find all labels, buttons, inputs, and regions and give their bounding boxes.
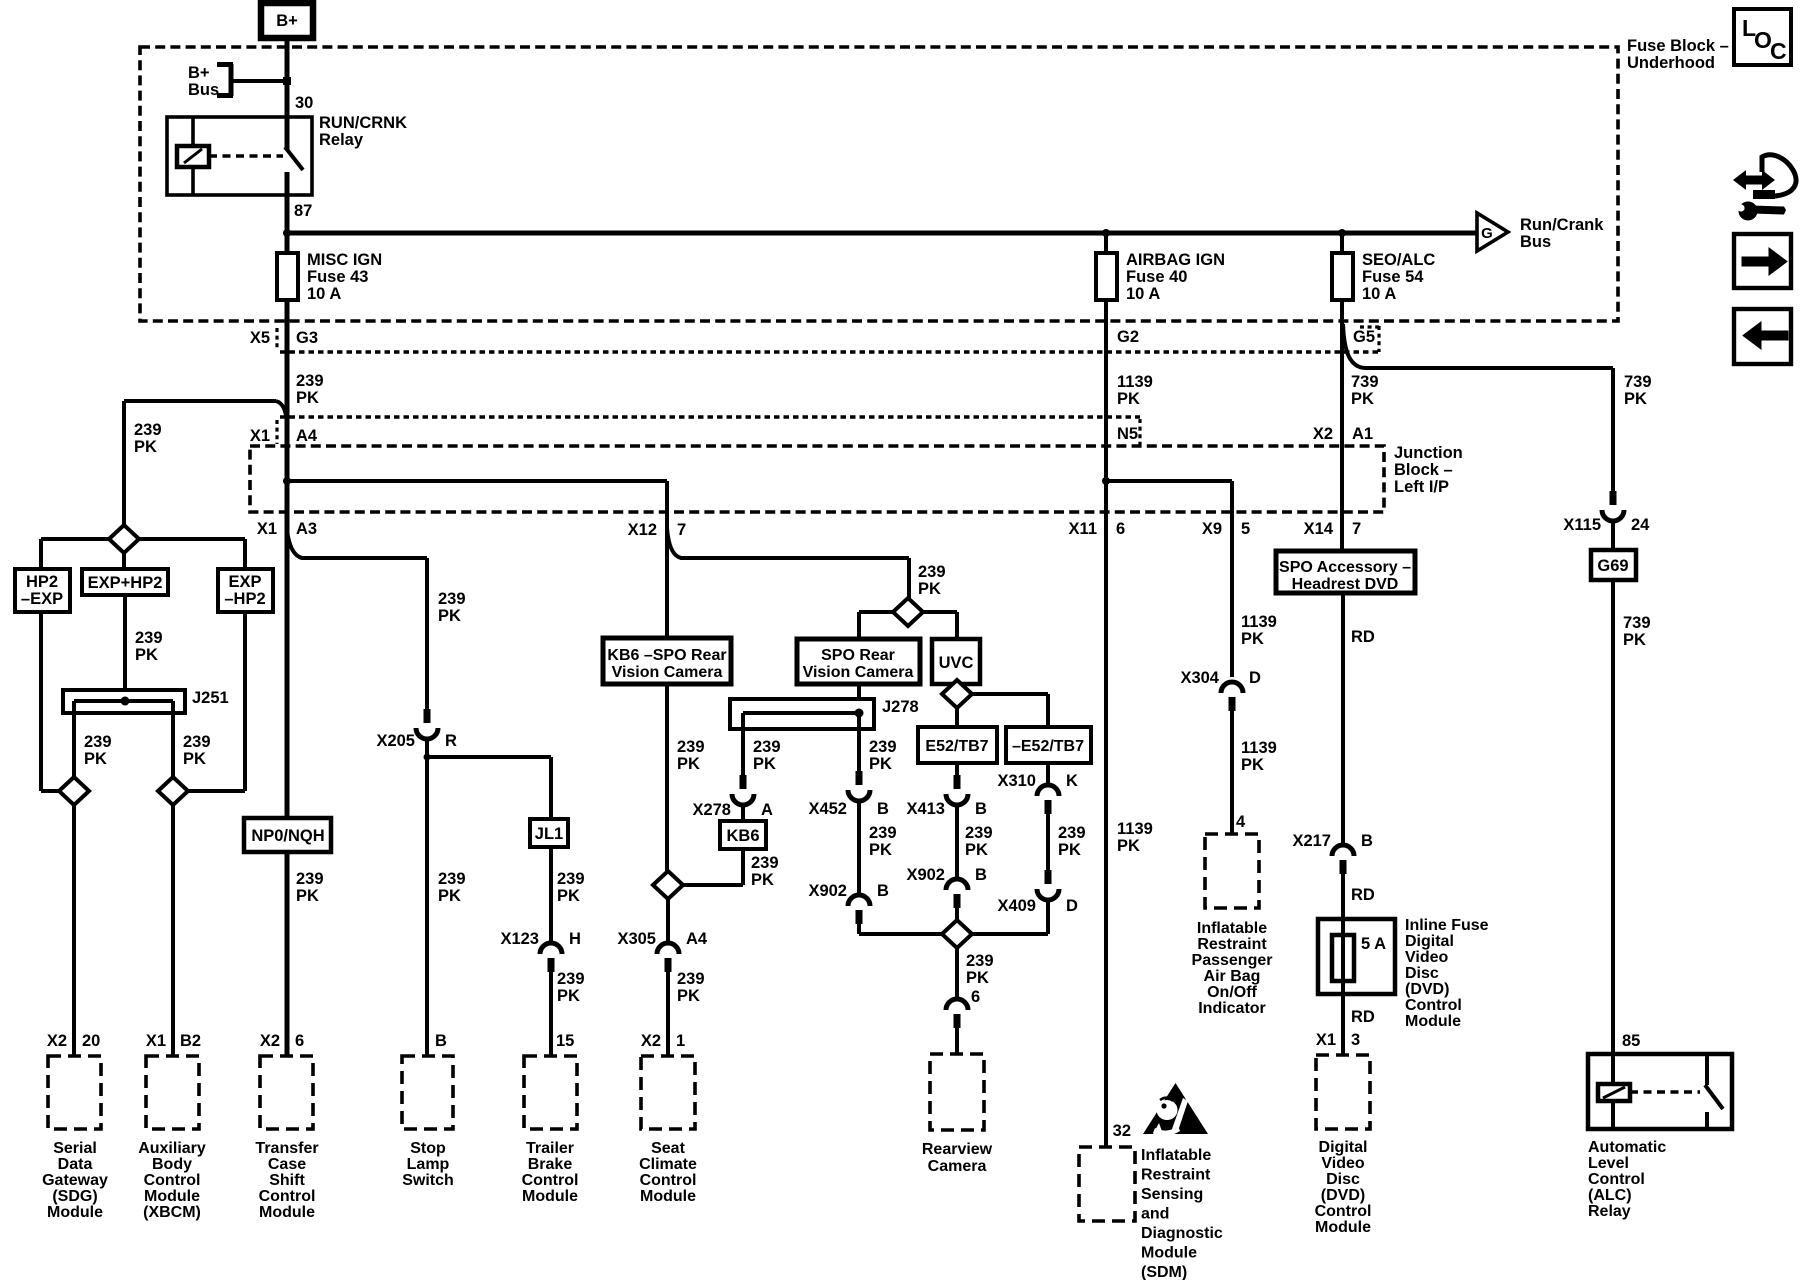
module box Trailer Brake Control Module xyxy=(524,1056,577,1129)
bus bar J278 xyxy=(730,699,874,729)
svg-text:Relay: Relay xyxy=(319,131,364,149)
ALC relay coil xyxy=(1598,1084,1630,1101)
svg-text:K: K xyxy=(1066,772,1078,790)
N5 dotted box edge xyxy=(1138,419,1141,445)
svg-text:X452: X452 xyxy=(808,800,847,818)
svg-text:Module: Module xyxy=(1405,1013,1461,1030)
wire J278 left leg to X278 xyxy=(741,713,745,775)
svg-text:239: 239 xyxy=(135,629,163,647)
relay box ALC xyxy=(1588,1054,1732,1129)
svg-text:Video: Video xyxy=(1321,1155,1365,1172)
svg-text:Brake: Brake xyxy=(528,1156,573,1173)
svg-text:Junction: Junction xyxy=(1394,444,1463,462)
svg-text:X9: X9 xyxy=(1202,520,1222,538)
label X9 5 xyxy=(1202,520,1250,538)
wire X902 left to splice xyxy=(859,923,943,934)
svg-text:Seat: Seat xyxy=(651,1140,685,1157)
option box EXP -HP2 xyxy=(218,569,273,612)
option box JL1 xyxy=(530,819,568,847)
icon forward arrow box xyxy=(1734,234,1791,288)
svg-text:X2: X2 xyxy=(1313,425,1333,443)
splice diamond XBCM xyxy=(158,777,188,805)
wire B+ to relay pin 30 xyxy=(285,38,290,150)
junction dot J251 xyxy=(121,697,130,706)
svg-text:D: D xyxy=(1066,897,1078,915)
svg-text:G5: G5 xyxy=(1353,328,1375,346)
svg-text:Air Bag: Air Bag xyxy=(1204,968,1261,985)
svg-text:PK: PK xyxy=(918,580,941,598)
label X409 D xyxy=(997,897,1078,915)
back arrow xyxy=(1743,322,1788,349)
wire G69 to ALC relay xyxy=(1611,580,1615,1054)
svg-text:20: 20 xyxy=(82,1032,100,1050)
svg-text:X205: X205 xyxy=(376,732,415,750)
option box KB6 xyxy=(720,821,766,849)
module box Transfer Case Shift Control Module xyxy=(260,1056,313,1129)
svg-text:Inflatable: Inflatable xyxy=(1197,920,1267,937)
page icon L-O-C box xyxy=(1734,9,1791,65)
module box Stop Lamp Switch xyxy=(402,1056,453,1129)
svg-text:739: 739 xyxy=(1624,373,1652,391)
wire splice2 to E52/TB7 xyxy=(955,708,959,727)
svg-text:RD: RD xyxy=(1351,628,1375,646)
relay internal dashed actuator link xyxy=(209,154,283,158)
svg-text:B: B xyxy=(877,882,889,900)
svg-text:87: 87 xyxy=(294,202,312,220)
relay switch lower contact xyxy=(285,172,290,195)
svg-text:PK: PK xyxy=(1117,390,1140,408)
wire splice to XBCM module xyxy=(171,805,175,1056)
svg-text:A4: A4 xyxy=(686,930,708,948)
option box -E52/TB7 xyxy=(1006,727,1091,763)
relay coil xyxy=(177,146,209,167)
svg-text:239: 239 xyxy=(296,372,324,390)
svg-text:X2: X2 xyxy=(47,1032,67,1050)
svg-text:PK: PK xyxy=(438,887,461,905)
relay coil lower lead xyxy=(191,167,195,195)
svg-text:PK: PK xyxy=(677,755,700,773)
svg-text:239: 239 xyxy=(1058,824,1086,842)
svg-text:PK: PK xyxy=(84,750,107,768)
svg-text:X1: X1 xyxy=(257,520,277,538)
svg-text:PK: PK xyxy=(869,841,892,859)
svg-text:Diagnostic: Diagnostic xyxy=(1141,1225,1223,1242)
svg-text:Control: Control xyxy=(640,1172,697,1189)
wire connector to rearview camera xyxy=(955,1027,959,1054)
svg-text:Transfer: Transfer xyxy=(255,1140,318,1157)
wire EXP+HP2 to J251 xyxy=(123,595,127,701)
svg-text:Headrest DVD: Headrest DVD xyxy=(1292,576,1399,593)
inline connector X310 xyxy=(1037,785,1059,814)
svg-text:PK: PK xyxy=(557,987,580,1005)
letters L O C xyxy=(1742,15,1787,64)
label HP2 -EXP xyxy=(21,573,63,608)
junction block left I/P dashed outline xyxy=(250,446,1384,512)
label X1 B2 XBCM pins xyxy=(146,1032,201,1050)
wire -E52 to X310 xyxy=(1046,763,1050,786)
svg-text:Bus: Bus xyxy=(188,81,219,99)
svg-text:X2: X2 xyxy=(641,1032,661,1050)
svg-text:X902: X902 xyxy=(808,882,847,900)
label X413 B xyxy=(906,800,987,818)
splice diamond main left xyxy=(109,525,139,553)
svg-text:PK: PK xyxy=(1117,837,1140,855)
svg-text:X304: X304 xyxy=(1180,669,1219,687)
wire J278 right leg to X452 xyxy=(857,713,861,771)
wire KB6 camera to splice xyxy=(665,684,669,872)
svg-text:EXP: EXP xyxy=(228,573,261,591)
svg-text:A3: A3 xyxy=(296,520,317,538)
svg-text:1139: 1139 xyxy=(1241,613,1277,631)
svg-text:X1: X1 xyxy=(1316,1031,1336,1049)
svg-text:239: 239 xyxy=(677,738,705,756)
svg-text:1139: 1139 xyxy=(1241,739,1277,757)
svg-text:739: 739 xyxy=(1351,373,1379,391)
label SPO Accessory - Headrest DVD xyxy=(1279,559,1411,593)
wire SPO camera to J278 xyxy=(857,684,861,713)
icon back arrow box xyxy=(1734,309,1791,364)
svg-text:239: 239 xyxy=(296,870,324,888)
relay RUN/CRNK box xyxy=(167,117,312,195)
svg-text:MISC IGN: MISC IGN xyxy=(307,251,382,269)
separator X1|A4 xyxy=(275,420,278,444)
svg-text:NP0/NQH: NP0/NQH xyxy=(251,827,324,845)
svg-text:X278: X278 xyxy=(692,801,731,819)
svg-text:SPO Accessory –: SPO Accessory – xyxy=(1279,559,1411,576)
power feed B+ terminal box xyxy=(261,3,313,38)
svg-text:UVC: UVC xyxy=(939,654,974,672)
svg-text:Module: Module xyxy=(259,1204,315,1221)
wire G5 branch curve to right xyxy=(1343,324,1613,368)
svg-text:Restraint: Restraint xyxy=(1197,936,1267,953)
svg-text:Left I/P: Left I/P xyxy=(1394,478,1449,496)
wire X310 to X409 xyxy=(1046,813,1050,870)
run/crank bus output triangle G xyxy=(1477,213,1508,251)
module box DVD control module xyxy=(1316,1055,1370,1129)
G5 dotted box edge xyxy=(1360,326,1379,352)
label X2 6 transfer pins xyxy=(260,1032,304,1050)
svg-text:X217: X217 xyxy=(1292,832,1331,850)
svg-text:G69: G69 xyxy=(1597,557,1628,575)
svg-text:Fuse 54: Fuse 54 xyxy=(1362,268,1424,286)
module box Seat Climate Control Module xyxy=(641,1056,695,1129)
module box SDM xyxy=(1079,1147,1135,1221)
wire splice to SPO camera xyxy=(859,612,893,639)
svg-text:X413: X413 xyxy=(906,800,945,818)
svg-text:KB6 –SPO Rear: KB6 –SPO Rear xyxy=(607,647,726,664)
option box KB6 -SPO Rear Vision Camera xyxy=(603,638,731,684)
wire fuse 54 top lead xyxy=(1340,233,1344,253)
wire left branch horizontal xyxy=(124,399,276,403)
wire X452 to X902 xyxy=(857,801,861,896)
svg-text:PK: PK xyxy=(753,755,776,773)
wire splice to SDG module xyxy=(72,805,76,1056)
wire SPO feed drop to splice xyxy=(907,558,911,599)
wire splice to EXP-HP2 xyxy=(139,539,245,569)
svg-text:HP2: HP2 xyxy=(26,573,58,591)
svg-text:Trailer: Trailer xyxy=(526,1140,574,1157)
svg-text:Passenger: Passenger xyxy=(1192,952,1273,969)
junction dot JL1 branch xyxy=(424,754,431,761)
svg-text:X115: X115 xyxy=(1563,516,1601,534)
wire splice to X305 xyxy=(666,899,670,944)
wire X123 to trailer brake module xyxy=(549,971,553,1056)
svg-text:X1: X1 xyxy=(146,1032,166,1050)
svg-text:X123: X123 xyxy=(500,930,539,948)
wire stop lamp drop to X205 xyxy=(425,558,429,711)
wire E52 to X413 xyxy=(955,763,959,775)
svg-text:1: 1 xyxy=(676,1032,685,1050)
junction dot trunk xyxy=(283,477,291,485)
svg-text:PK: PK xyxy=(869,755,892,773)
svg-text:Video: Video xyxy=(1405,949,1449,966)
svg-text:Case: Case xyxy=(268,1156,306,1173)
svg-text:and: and xyxy=(1141,1205,1169,1222)
svg-text:KB6: KB6 xyxy=(726,827,759,845)
wire relay 87 down to fuse 43 xyxy=(285,195,290,253)
svg-text:–E52/TB7: –E52/TB7 xyxy=(1012,738,1084,755)
fuse F54 SEO/ALC xyxy=(1332,253,1353,300)
svg-text:Shift: Shift xyxy=(269,1172,305,1189)
svg-text:PK: PK xyxy=(296,389,319,407)
svg-text:A4: A4 xyxy=(296,427,318,445)
svg-text:E52/TB7: E52/TB7 xyxy=(925,738,988,755)
svg-text:239: 239 xyxy=(84,733,112,751)
label X12 7 xyxy=(628,521,687,539)
inline connector X409 xyxy=(1037,870,1059,900)
bus bar J251 xyxy=(63,690,185,713)
svg-text:Lamp: Lamp xyxy=(407,1156,450,1173)
svg-text:X305: X305 xyxy=(617,930,656,948)
svg-text:239: 239 xyxy=(438,870,466,888)
junction tick B+ bus at trunk xyxy=(283,77,291,85)
option box HP2 -EXP xyxy=(15,569,70,612)
wire X217 to inline fuse xyxy=(1341,873,1345,919)
wire X413 to X902 mid xyxy=(955,805,959,880)
svg-text:Serial: Serial xyxy=(53,1140,97,1157)
option box SPO Rear Vision Camera xyxy=(797,639,920,684)
wire branch to JL1 xyxy=(427,757,551,819)
svg-text:Module: Module xyxy=(47,1204,103,1221)
svg-text:7: 7 xyxy=(1352,520,1361,538)
junction dot bus at fuse 54 xyxy=(1338,229,1346,237)
option box UVC xyxy=(932,639,980,684)
svg-text:G3: G3 xyxy=(296,329,318,347)
label X2 1 seat pins xyxy=(641,1032,685,1050)
svg-text:Vision Camera: Vision Camera xyxy=(612,664,723,681)
svg-text:–EXP: –EXP xyxy=(21,590,63,608)
wire left branch down to splice xyxy=(122,401,126,525)
inline fuse element xyxy=(1332,935,1354,981)
label X278 A xyxy=(692,801,773,819)
svg-text:Auxiliary: Auxiliary xyxy=(138,1140,206,1157)
svg-text:G2: G2 xyxy=(1117,328,1139,346)
svg-text:X409: X409 xyxy=(997,897,1036,915)
svg-text:B: B xyxy=(435,1032,447,1050)
svg-text:RUN/CRNK: RUN/CRNK xyxy=(319,114,407,132)
label X115 24 xyxy=(1563,516,1650,534)
wire JL1 to X123 xyxy=(549,847,553,944)
svg-text:Underhood: Underhood xyxy=(1627,54,1715,72)
option box NP0/NQH xyxy=(244,818,331,852)
svg-text:6: 6 xyxy=(1116,520,1125,538)
svg-text:6: 6 xyxy=(295,1032,304,1050)
splice diamond SDG xyxy=(59,777,89,805)
module box Serial Data Gateway xyxy=(48,1056,101,1129)
svg-text:B: B xyxy=(975,800,987,818)
svg-text:1139: 1139 xyxy=(1117,820,1153,838)
label X11 6 xyxy=(1069,520,1126,538)
module box Rearview Camera xyxy=(930,1054,984,1130)
wire splice to UVC xyxy=(922,612,957,639)
svg-text:239: 239 xyxy=(557,970,585,988)
svg-text:239: 239 xyxy=(966,952,994,970)
svg-text:SPO Rear: SPO Rear xyxy=(821,647,895,664)
svg-text:B: B xyxy=(877,800,889,818)
junction dot bus at fuse 40 xyxy=(1102,229,1110,237)
inline connector X115 xyxy=(1602,491,1624,521)
svg-text:(DVD): (DVD) xyxy=(1405,981,1449,998)
option box EXP+HP2 xyxy=(82,569,168,595)
svg-text:PK: PK xyxy=(751,871,774,889)
ALC relay switch blade xyxy=(1705,1085,1723,1109)
B+ Bus tap symbol xyxy=(217,64,233,96)
label X205 R xyxy=(376,732,457,750)
svg-text:(XBCM): (XBCM) xyxy=(143,1204,201,1221)
separator X5|G3 xyxy=(275,328,278,350)
label X310 K xyxy=(997,772,1078,790)
svg-text:PK: PK xyxy=(183,750,206,768)
inline connector X902 mid xyxy=(946,879,968,908)
svg-text:B+: B+ xyxy=(276,12,298,30)
svg-text:PK: PK xyxy=(1241,756,1264,774)
svg-text:H: H xyxy=(569,930,581,948)
wire X305 to seat climate module xyxy=(666,971,670,1056)
svg-text:Gateway: Gateway xyxy=(42,1172,108,1189)
wire left branch merge curve xyxy=(276,401,287,428)
label X1 3 DVD pin xyxy=(1316,1031,1360,1049)
splice diamond rear camera KB6 xyxy=(653,871,683,899)
svg-text:C: C xyxy=(1770,38,1787,64)
svg-text:Fuse 40: Fuse 40 xyxy=(1126,268,1187,286)
svg-text:239: 239 xyxy=(557,870,585,888)
svg-text:Inflatable: Inflatable xyxy=(1141,1147,1211,1164)
svg-text:X2: X2 xyxy=(260,1032,280,1050)
svg-text:X1: X1 xyxy=(250,427,270,445)
svg-text:SEO/ALC: SEO/ALC xyxy=(1362,251,1435,269)
wire trunk junction block to transfer case module xyxy=(285,481,290,1056)
svg-text:85: 85 xyxy=(1622,1032,1640,1050)
fuse F43 MISC IGN xyxy=(277,253,298,300)
svg-text:Module: Module xyxy=(1141,1244,1197,1261)
svg-text:Control: Control xyxy=(1405,997,1462,1014)
svg-text:Automatic: Automatic xyxy=(1588,1139,1666,1156)
connector box G69 xyxy=(1591,550,1636,580)
wire X902 mid to splice3 xyxy=(955,907,959,921)
svg-text:239: 239 xyxy=(751,854,779,872)
wire splice to EXP+HP2 xyxy=(122,553,126,569)
svg-text:PK: PK xyxy=(135,646,158,664)
svg-text:(SDM): (SDM) xyxy=(1141,1264,1187,1280)
fuse F40 AIRBAG IGN xyxy=(1096,253,1117,300)
svg-text:PK: PK xyxy=(965,841,988,859)
wire X12 branch curve to SPO feed xyxy=(667,528,909,558)
svg-text:Climate: Climate xyxy=(639,1156,697,1173)
svg-text:10 A: 10 A xyxy=(1362,285,1396,303)
wire X12 leg down to KB6 camera xyxy=(665,481,669,638)
svg-text:PK: PK xyxy=(677,987,700,1005)
svg-text:PK: PK xyxy=(134,438,157,456)
svg-text:X5: X5 xyxy=(250,329,270,347)
svg-text:–HP2: –HP2 xyxy=(224,590,265,608)
label X304 D xyxy=(1180,669,1261,687)
svg-text:X310: X310 xyxy=(997,772,1036,790)
svg-text:B+: B+ xyxy=(188,64,210,82)
wire SPO accessory to X217 xyxy=(1341,593,1345,846)
svg-text:15: 15 xyxy=(556,1032,574,1050)
relay coil diagonal xyxy=(184,149,202,163)
wire X278 to KB6 box xyxy=(741,805,745,821)
connector row dotted line X1/A4 N5 xyxy=(280,415,1140,419)
svg-text:4: 4 xyxy=(1236,813,1246,831)
svg-text:X14: X14 xyxy=(1304,520,1334,538)
inline connector X123 xyxy=(540,943,562,972)
wire splice3 down to pin 6 xyxy=(955,948,959,998)
label X2 20 SDG pins xyxy=(47,1032,101,1050)
svg-text:Disc: Disc xyxy=(1326,1171,1360,1188)
module box Inflatable Restraint Passenger Air Bag On/Off Indicator xyxy=(1205,834,1259,908)
svg-text:239: 239 xyxy=(869,824,897,842)
wire X304 to indicator xyxy=(1230,710,1234,834)
svg-text:A1: A1 xyxy=(1352,425,1373,443)
relay switch blade xyxy=(285,147,303,170)
svg-text:5 A: 5 A xyxy=(1361,935,1386,953)
wire fuse 40 top lead xyxy=(1104,233,1108,253)
svg-text:7: 7 xyxy=(677,521,686,539)
ALC relay switch lower stub xyxy=(1705,1112,1709,1129)
wire fuse54 down to SPO accessory box xyxy=(1340,300,1344,551)
wire J251 right leg xyxy=(171,701,175,777)
svg-text:Restraint: Restraint xyxy=(1141,1166,1211,1183)
wire HP2-EXP down xyxy=(41,612,59,791)
svg-text:Block –: Block – xyxy=(1394,461,1453,479)
svg-text:Fuse Block –: Fuse Block – xyxy=(1627,37,1729,55)
fuse block - underhood dashed outline xyxy=(140,47,1618,321)
wire through inline fuse xyxy=(1341,919,1345,994)
svg-text:RD: RD xyxy=(1351,886,1375,904)
svg-text:Sensing: Sensing xyxy=(1141,1186,1203,1203)
svg-text:PK: PK xyxy=(557,887,580,905)
svg-text:Disc: Disc xyxy=(1405,965,1439,982)
wire X409 to splice3 xyxy=(971,900,1048,934)
wire fuse40 down to SDM xyxy=(1104,300,1108,1147)
svg-text:B2: B2 xyxy=(180,1032,201,1050)
label X1 A3 xyxy=(257,520,317,538)
junction dot J278 xyxy=(855,709,864,718)
junction dot airbag branch xyxy=(1102,477,1110,485)
wire junction block internal 239 feed xyxy=(287,479,667,483)
wire X205 to stop lamp switch xyxy=(425,740,429,1056)
svg-text:(ALC): (ALC) xyxy=(1588,1187,1632,1204)
connector row dotted line X5/G2/G5 xyxy=(280,350,1380,354)
label KB6 -SPO Rear Vision Camera xyxy=(607,647,726,681)
svg-text:J251: J251 xyxy=(192,689,229,707)
svg-text:Digital: Digital xyxy=(1319,1139,1368,1156)
svg-text:Inline Fuse: Inline Fuse xyxy=(1405,917,1489,934)
svg-text:PK: PK xyxy=(1624,390,1647,408)
wire KB6 box to splice xyxy=(683,849,743,885)
svg-text:Stop: Stop xyxy=(410,1140,446,1157)
